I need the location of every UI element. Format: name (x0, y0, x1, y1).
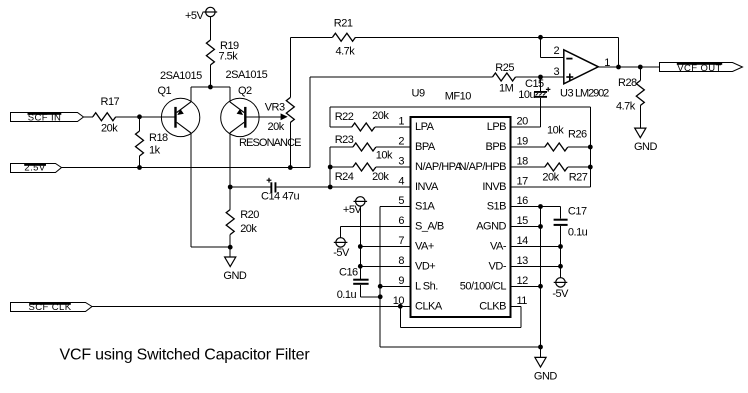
wire pin 6 S_A/B (341, 226, 411, 228)
svg-text:AGND: AGND (476, 221, 506, 233)
wire branch down to minus input (540, 37, 542, 57)
svg-text:2SA1015: 2SA1015 (226, 69, 268, 81)
svg-text:2: 2 (398, 136, 404, 148)
wire pin 5 S1A (380, 206, 410, 208)
wire ground vertical right (540, 207, 542, 348)
wire R20 to ground node (229, 235, 231, 248)
resistor R25 (493, 73, 516, 81)
power +5V top (204, 7, 218, 40)
wire pin 19 BPB to R26 (511, 146, 545, 148)
capacitor C15 10u (534, 77, 550, 127)
svg-text:R26: R26 (568, 129, 587, 141)
svg-text:4: 4 (398, 176, 404, 188)
wire feedback down to output (618, 37, 620, 67)
wire VR3 bottom to rail (289, 123, 291, 168)
svg-text:R21: R21 (334, 18, 353, 30)
wire Q1 collector to ground node (191, 246, 230, 248)
node ground rail junction (538, 345, 543, 350)
svg-text:VD+: VD+ (415, 261, 435, 273)
svg-text:20: 20 (517, 116, 529, 128)
svg-text:R24: R24 (335, 171, 354, 183)
wire SCF CLK to pin 10 CLKA (92, 305, 411, 307)
node R17/R18 junction (137, 114, 142, 119)
wire pin 15 AGND (511, 226, 541, 228)
wire minus input (541, 57, 564, 59)
node VD+ junction (358, 264, 363, 269)
ground (535, 357, 546, 367)
wire R25 to op-amp plus input (516, 76, 564, 78)
svg-text:C17: C17 (568, 206, 587, 218)
svg-text:VD-: VD- (489, 261, 507, 273)
wire R17 to Q1 base (116, 116, 175, 118)
node feedback / op-amp minus branch (538, 35, 543, 40)
svg-text:14: 14 (517, 235, 529, 247)
node VR3/rail junction (288, 165, 293, 170)
svg-text:L Sh.: L Sh. (415, 281, 438, 293)
node VA- junction (558, 244, 563, 249)
svg-text:20k: 20k (268, 121, 285, 133)
node R26 junction (588, 145, 593, 150)
wire clock under IC (400, 326, 521, 328)
svg-text:U9: U9 (412, 88, 425, 100)
resistor R18 (136, 131, 144, 156)
wire R27 to vertical (568, 166, 591, 168)
node output/feedback (616, 65, 621, 70)
VR3 wiper arrow (281, 113, 288, 120)
svg-text:-5V: -5V (552, 288, 569, 300)
node CLKA/CLKB junction (398, 304, 403, 309)
op-amp U3 LM2902 (564, 50, 599, 84)
svg-text:GND: GND (634, 141, 658, 153)
wire emitter rail (191, 86, 230, 88)
svg-text:2: 2 (554, 45, 560, 57)
svg-text:LPB: LPB (487, 121, 506, 133)
node L Sh. junction (378, 284, 383, 289)
svg-text:19: 19 (517, 136, 529, 148)
svg-text:GND: GND (223, 270, 247, 282)
resistor R17 (93, 113, 116, 121)
svg-text:S_A/B: S_A/B (415, 221, 444, 233)
svg-text:2SA1015: 2SA1015 (160, 70, 202, 82)
wire to R25 (310, 76, 492, 78)
wire R26 to vertical (568, 146, 591, 148)
node R18/rail junction (137, 165, 142, 170)
node output/R28 (638, 65, 643, 70)
node 50/100/CL junction (538, 284, 543, 289)
svg-text:R22: R22 (335, 111, 354, 123)
svg-text:17: 17 (517, 176, 529, 188)
svg-text:R17: R17 (101, 96, 120, 108)
svg-text:VCF using Switched Capacitor F: VCF using Switched Capacitor Filter (60, 347, 311, 364)
node C16 return (378, 294, 383, 299)
wire Q1 collector down (190, 133, 192, 247)
svg-text:GND: GND (534, 371, 558, 383)
node Q2 collector / C14 junction (228, 185, 233, 190)
svg-text:10u: 10u (518, 89, 535, 101)
power -5V right (554, 278, 568, 287)
IC U9 MF10 box (411, 117, 511, 317)
wire Q2 collector down (229, 133, 231, 187)
wire to R24 (330, 166, 353, 168)
svg-text:R25: R25 (495, 62, 514, 74)
svg-text:MF10: MF10 (445, 90, 472, 102)
power -5V left (334, 227, 348, 248)
wire R19 to emitter rail (209, 65, 211, 87)
wire C16 to ground vertical (360, 296, 380, 298)
svg-text:0.1u: 0.1u (568, 227, 588, 239)
node VD- junction (558, 264, 563, 269)
wire C17 bottom to VA- (560, 226, 562, 247)
svg-text:N/AP/HPA: N/AP/HPA (415, 161, 463, 173)
wire rail up to R25 line (309, 77, 311, 168)
wire SCF IN tip to R17 (84, 116, 93, 118)
wire node to C14 (230, 186, 271, 188)
svg-text:4.7k: 4.7k (616, 101, 636, 113)
wire +5V down to C16 (359, 206, 361, 279)
svg-text:20k: 20k (372, 171, 389, 183)
wire bottom ground rail (380, 346, 540, 348)
svg-text:20k: 20k (372, 110, 389, 122)
svg-text:4.7k: 4.7k (336, 45, 356, 57)
wire R21 to feedback corner (356, 36, 619, 38)
wire VR3 top to R21 (290, 36, 332, 38)
wire down to R22 (329, 107, 331, 127)
svg-text:+5V: +5V (185, 10, 205, 22)
resistor R27 (545, 163, 568, 171)
svg-text:LPA: LPA (415, 121, 435, 133)
wire INVB feedback vertical (589, 107, 591, 187)
resistor R19 (206, 40, 214, 65)
wire C14 to pin4 node (276, 186, 330, 188)
svg-text:S1A: S1A (415, 201, 435, 213)
wire junction down to R18 (139, 117, 141, 131)
svg-text:20k: 20k (101, 122, 118, 134)
port tag 2.5V (11, 162, 62, 173)
resistor R26 (545, 143, 568, 151)
power +5V left (354, 197, 368, 206)
svg-text:-5V: -5V (333, 247, 350, 259)
port tag VCF OUT (660, 63, 743, 74)
svg-text:10k: 10k (547, 124, 564, 136)
resistor R21 (333, 33, 356, 41)
wire 2.5V rail (62, 167, 311, 169)
svg-text:7: 7 (398, 235, 404, 247)
svg-text:8: 8 (398, 255, 404, 267)
node AGND junction (538, 224, 543, 229)
svg-text:0.1u: 0.1u (337, 289, 357, 301)
svg-text:6: 6 (398, 215, 404, 227)
ground (635, 128, 646, 138)
wire VR3 top to R21 line (289, 37, 291, 97)
svg-text:12: 12 (517, 275, 529, 287)
potentiometer VR3 body (286, 98, 294, 123)
svg-text:BPA: BPA (415, 141, 436, 153)
capacitor C16 0.1u (353, 279, 368, 285)
wire pin 17 INVB (511, 186, 591, 188)
wire Q2 base to VR3 wiper (247, 116, 282, 118)
transistor Q1 2SA1015 (161, 98, 199, 136)
node ground junction (228, 245, 233, 250)
svg-text:S1B: S1B (487, 201, 506, 213)
svg-text:18: 18 (517, 156, 529, 168)
wire R28 to ground symbol (639, 106, 641, 129)
svg-text:5: 5 (398, 195, 404, 207)
transistor Q2 2SA1015 (221, 98, 259, 136)
capacitor C14 (267, 178, 277, 193)
wire pin 18 BPB to R27 (511, 166, 545, 168)
resistor R20 (226, 210, 234, 235)
wire R18 to 2.5V rail (139, 156, 141, 168)
svg-text:1: 1 (398, 116, 404, 128)
wire pin 9 L Sh. (380, 285, 410, 287)
svg-text:R28: R28 (618, 77, 637, 89)
wire pin 20 LPB (511, 126, 541, 128)
wire Q2 emitter up (229, 87, 231, 102)
wire S1B down to C17 (560, 207, 562, 219)
svg-text:3: 3 (398, 156, 404, 168)
svg-text:R18: R18 (149, 132, 168, 144)
port tag SCF CLK (11, 302, 93, 313)
svg-text:3: 3 (554, 66, 560, 78)
svg-text:CLKA: CLKA (415, 301, 443, 313)
wire R23 to pin 2 (376, 146, 411, 148)
ground (225, 257, 236, 267)
wire Q1 emitter up (190, 87, 192, 102)
wire pin 16 S1B (511, 206, 561, 208)
svg-text:1k: 1k (149, 145, 161, 157)
svg-text:1M: 1M (499, 83, 514, 95)
svg-text:INVA: INVA (415, 181, 439, 193)
node R24 branch (328, 165, 333, 170)
svg-text:+5V: +5V (343, 204, 363, 216)
wire pin 11 CLKB stub (511, 305, 521, 307)
svg-text:15: 15 (517, 215, 529, 227)
wire pin 14 VA- (511, 246, 561, 248)
wire output node down to R28 (639, 67, 641, 81)
wire R22 to pin 1 (375, 126, 411, 128)
svg-text:U3: U3 (560, 87, 573, 99)
wire clock up to CLKB (520, 306, 522, 327)
svg-text:13: 13 (517, 255, 529, 267)
svg-text:N/AP/HPB: N/AP/HPB (459, 161, 507, 173)
wire to R22 (330, 126, 352, 128)
svg-text:VA+: VA+ (415, 241, 434, 253)
node R27 junction (588, 165, 593, 170)
wire to R23 (330, 146, 353, 148)
wire down to -5V right (560, 247, 562, 278)
svg-text:BPB: BPB (485, 141, 506, 153)
wire S1A ground vertical (379, 207, 381, 348)
wire junction to R20 (229, 187, 231, 210)
wire to ground symbol (540, 347, 542, 357)
svg-text:R20: R20 (240, 209, 259, 221)
resistor R23 (353, 143, 376, 151)
wire clock down (399, 306, 401, 327)
node VA+ junction (358, 244, 363, 249)
svg-text:LM2902: LM2902 (575, 87, 609, 99)
node R19/rail junction (208, 85, 213, 90)
resistor R24 (353, 163, 376, 171)
svg-text:50/100/CL: 50/100/CL (460, 281, 507, 293)
svg-text:INVB: INVB (482, 181, 506, 193)
wire LPA feedback line (330, 106, 590, 108)
node S1B junction (538, 204, 543, 209)
resistor R22 (352, 123, 375, 131)
wire op-amp output to VCF OUT (598, 66, 659, 68)
svg-text:11: 11 (517, 295, 528, 307)
wire pin 7 VA+ (360, 246, 410, 248)
svg-text:C16: C16 (339, 267, 358, 279)
port tag SCF IN (11, 112, 84, 123)
capacitor C17 0.1u (554, 219, 568, 226)
wire pin 8 VD+ (360, 265, 410, 267)
wire to ground symbol (229, 247, 231, 257)
svg-text:R23: R23 (335, 134, 354, 146)
wire R23 branch vertical (329, 147, 331, 187)
svg-text:10k: 10k (376, 150, 393, 162)
svg-text:20k: 20k (240, 223, 257, 235)
svg-text:9: 9 (398, 275, 404, 287)
svg-text:7.5k: 7.5k (219, 51, 239, 63)
svg-text:16: 16 (517, 195, 529, 207)
svg-text:CLKB: CLKB (479, 301, 506, 313)
wire C16 bottom (359, 285, 361, 297)
svg-text:VR3: VR3 (265, 101, 285, 113)
svg-text:Q2: Q2 (238, 85, 252, 97)
svg-text:20k: 20k (542, 172, 559, 184)
svg-text:R27: R27 (569, 172, 588, 184)
svg-text:Q1: Q1 (158, 85, 172, 97)
node plus input / C15 junction (538, 75, 543, 80)
svg-text:C14 47u: C14 47u (261, 190, 299, 202)
resistor R28 (636, 81, 644, 106)
wire pin 13 VD- (511, 265, 561, 267)
svg-text:VA-: VA- (490, 241, 507, 253)
wire R24 to pin 3 (376, 166, 411, 168)
node INVA branch (328, 185, 333, 190)
wire C14 node to pin 4 INVA (330, 186, 410, 188)
wire pin 12 50/100/CL (511, 285, 541, 287)
svg-text:RESONANCE: RESONANCE (239, 137, 301, 149)
